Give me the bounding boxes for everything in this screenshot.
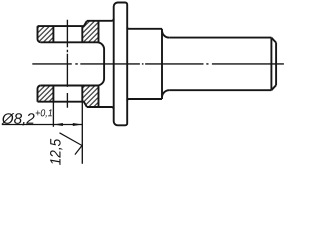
dimension line with outward arrows [2, 124, 83, 126]
hatched section: plate upper-right [82, 21, 98, 43]
hatched section: plate lower-right [82, 86, 98, 108]
plate outline lower [38, 85, 99, 107]
shaft top line [169, 37, 271, 39]
extension line right (hole dia / surface) [81, 102, 83, 164]
small shaft with chamfered end [169, 38, 276, 91]
shoulder top [127, 27, 162, 28]
shaft shoulder and step [127, 27, 169, 100]
centerline vertical (hole axis) [66, 20, 68, 108]
hatched section: plate upper-left [38, 26, 54, 42]
flange head outline [114, 3, 128, 126]
dimension text hole diameter [1, 113, 34, 126]
chamfer bottom [271, 85, 276, 90]
step fillet bottom [162, 90, 169, 97]
extension line left (hole dia) [52, 102, 54, 127]
step face [161, 29, 163, 99]
plate right face upper [98, 21, 100, 43]
chamfer edge [270, 38, 272, 91]
hatched section: plate lower-left [38, 86, 54, 102]
surface roughness tick [60, 133, 83, 155]
pin neck surface and flange head [87, 3, 127, 126]
arrowhead right [73, 123, 83, 126]
hole edge right upper [81, 26, 83, 42]
hole edge left lower [52, 86, 54, 102]
centerline horizontal (shaft axis) [32, 63, 284, 65]
pin flared left end: upper surface, fillet and end face [41, 42, 104, 85]
tolerance text +0,1 [36, 109, 52, 117]
shaft bottom line [169, 89, 271, 91]
shoulder bottom [127, 99, 162, 100]
neck bottom [87, 107, 114, 109]
step fillet top [162, 31, 169, 38]
roughness value text rotated [50, 139, 62, 165]
neck top [87, 19, 114, 21]
arrowhead left [53, 123, 63, 126]
plate right face lower [98, 85, 100, 107]
hole edge right lower [81, 86, 83, 102]
plate outline upper [38, 21, 99, 43]
hole edge left upper [52, 26, 54, 42]
chamfer top [271, 38, 276, 43]
end face [275, 43, 277, 86]
